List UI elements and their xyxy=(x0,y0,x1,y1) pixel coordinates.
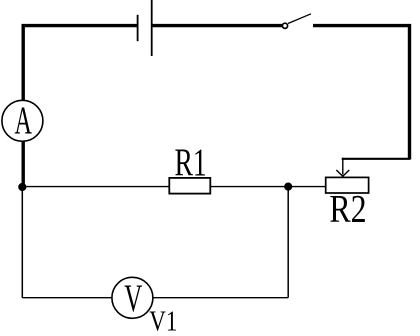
svg-text:A: A xyxy=(14,99,32,142)
wire right lower vertical (thin) xyxy=(287,187,289,298)
rheostat wiper arrowhead xyxy=(336,170,349,176)
svg-text:V: V xyxy=(124,278,142,321)
switch S pivot circle xyxy=(282,23,287,28)
wire battery to switch (thick) xyxy=(152,24,282,27)
wire bottom horizontal right (voltmeter to junction) xyxy=(152,297,288,299)
wire rheostat wiper connector horizontal xyxy=(342,158,410,160)
battery cell short plate (negative) xyxy=(137,15,139,41)
svg-text:V1: V1 xyxy=(149,305,177,336)
wire middle horizontal right (R1 to R2) xyxy=(210,186,325,188)
ammeter A circle xyxy=(2,100,43,141)
resistor R1 box xyxy=(169,178,210,194)
wire switch to top-right corner and right vertical (thick) xyxy=(313,26,410,160)
rheostat R2 box xyxy=(326,177,369,193)
svg-text:R2: R2 xyxy=(329,187,366,231)
node junction dot right xyxy=(284,183,292,191)
svg-text:R1: R1 xyxy=(174,142,206,185)
wire rheostat wiper vertical xyxy=(342,158,344,175)
battery cell long plate (positive) xyxy=(151,0,153,56)
wire left vertical + top left segment (thick) xyxy=(23,26,137,187)
voltmeter V1 circle xyxy=(112,277,153,318)
node junction dot left xyxy=(18,183,26,191)
wire middle horizontal left (junction to R1) xyxy=(22,186,169,188)
switch S lever xyxy=(288,14,311,24)
wire left lower vertical (thin) xyxy=(21,187,23,298)
wire bottom horizontal left (to voltmeter) xyxy=(22,297,113,299)
